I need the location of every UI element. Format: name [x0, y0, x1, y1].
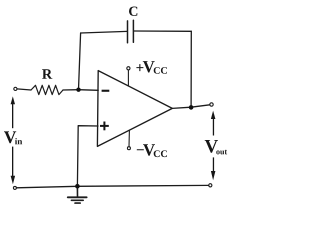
wire: feedback top-right segment	[134, 30, 191, 32]
wire: -Vcc stem	[128, 130, 130, 146]
arrow: Vout up	[211, 111, 216, 136]
arrow: Vin down	[11, 147, 16, 185]
capacitor C	[128, 20, 134, 43]
wire: bottom ground rail	[17, 185, 209, 187]
label -Vcc	[137, 144, 167, 157]
terminal: Vin bottom	[13, 186, 16, 189]
node: ground junction	[75, 184, 80, 189]
wire: input terminal to resistor	[17, 89, 31, 90]
wire: inverting input	[79, 89, 99, 92]
terminal: -Vcc	[127, 147, 130, 150]
wire: non-inverting input to ground rail	[77, 126, 98, 186]
label R	[42, 69, 52, 79]
terminal: +Vcc	[127, 67, 130, 70]
resistor R	[31, 85, 63, 94]
label +Vcc	[136, 61, 167, 74]
wire: output	[172, 105, 210, 109]
wire: resistor to inverting-input node	[63, 89, 79, 91]
wire: feedback top-left segment	[81, 31, 127, 33]
label Vout	[205, 140, 227, 154]
terminal: Vout top	[210, 103, 213, 106]
label Vin	[4, 131, 22, 144]
op-amp plus pin symbol	[100, 122, 109, 131]
arrow: Vout down	[211, 157, 216, 180]
terminal: Vin top	[14, 87, 17, 90]
node: inverting input junction	[76, 88, 80, 92]
node: output junction	[189, 105, 194, 110]
op-amp minus pin symbol	[102, 90, 110, 92]
arrow: Vin up	[11, 96, 15, 128]
op-amp U1 triangle	[97, 71, 172, 147]
wire: feedback right vertical	[190, 31, 192, 107]
terminal: Vout bottom	[209, 184, 212, 187]
ground	[68, 186, 87, 203]
wire: +Vcc stem	[127, 70, 129, 86]
wire: feedback left vertical	[79, 33, 81, 90]
label C	[129, 7, 137, 16]
